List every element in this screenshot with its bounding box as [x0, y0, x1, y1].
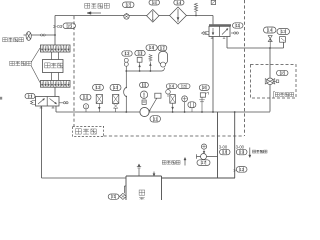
water tank label (shui xiang)	[139, 190, 145, 202]
gauge line y156	[197, 154, 218, 158]
tag oval 12 branch	[233, 167, 247, 173]
tag 3-03 with oval 15	[53, 23, 76, 29]
edge mark	[0, 97, 2, 100]
flow direction label top (shui liu fang xiang)	[85, 3, 110, 8]
tag 3-00 branch	[236, 145, 247, 155]
svg-text:21: 21	[111, 194, 116, 199]
tag oval 13 sensor	[110, 85, 121, 91]
gauge circle x184	[182, 96, 188, 112]
compressed air pipe	[24, 34, 56, 36]
tag oval 16 right	[199, 85, 209, 91]
water tank shell	[126, 176, 162, 200]
flow arrow left	[87, 12, 101, 15]
converter outlet pipe	[54, 87, 56, 96]
bottom return pipe left	[42, 177, 127, 179]
tank inlet arrow	[153, 172, 155, 177]
bus pipe lower	[217, 112, 219, 178]
tag oval 11 valve V2	[233, 23, 244, 28]
air cooler label (feng leng dan yuan)	[274, 91, 294, 97]
expansion tank	[159, 52, 168, 68]
vent outlet box N	[211, 0, 215, 4]
air cooler pipe	[269, 48, 271, 112]
pump inlet box	[142, 100, 146, 104]
svg-text:21: 21	[28, 94, 33, 99]
tag oval 17 expansion tank	[158, 45, 167, 51]
ball valve on top line	[124, 13, 129, 19]
pump P1	[140, 107, 149, 116]
bypass sensor box	[280, 37, 286, 43]
tank vent	[137, 164, 141, 176]
svg-text:14: 14	[170, 84, 174, 88]
junction dots header	[125, 70, 151, 72]
tag oval 11 gauge	[80, 94, 91, 100]
return drop pipe left	[41, 106, 43, 178]
tag oval 13 bypass	[277, 29, 290, 35]
top supply pipe	[55, 15, 213, 17]
air cooler dashed box	[251, 65, 297, 99]
water-cooling cabinet dashed boundary left	[73, 16, 75, 126]
tag oval 11 header	[135, 50, 145, 55]
converter bottom water jacket comb	[41, 81, 71, 88]
instrument header pipe	[126, 68, 164, 71]
thermometer circle	[140, 91, 147, 98]
level switch cable	[149, 98, 157, 111]
relief vent spring on top line	[194, 3, 197, 16]
cabinet label box (shui leng gui)	[73, 126, 104, 136]
left riser pipe	[54, 16, 56, 46]
level switch box	[155, 93, 161, 98]
tag oval 14 right	[166, 84, 177, 89]
pressure gauge x86	[83, 104, 88, 112]
inline capsule pump	[188, 102, 196, 112]
tank drain pipe	[124, 186, 126, 193]
solenoid directional valve V2	[209, 24, 231, 38]
svg-text:12: 12	[239, 167, 244, 172]
double ball valve x126	[124, 58, 128, 66]
tag oval 14 leader	[174, 0, 184, 5]
svg-text:12: 12	[125, 51, 130, 56]
tag oval 21 drain	[108, 194, 119, 199]
gauge small circle	[201, 144, 206, 153]
tag oval 18 air cooler	[277, 70, 289, 75]
pipe flange pair	[41, 34, 46, 36]
manifold corner junction	[125, 111, 235, 113]
filter F2 diamond	[170, 7, 187, 24]
compressed air label (ya suo kong qi)	[3, 38, 24, 42]
converter top water jacket comb	[41, 45, 71, 52]
junction bypass	[269, 47, 271, 49]
filter F1 diamond	[147, 10, 159, 23]
hose callout lines	[31, 48, 40, 83]
tag oval 21 valve	[25, 94, 35, 99]
tag oval 15 leader	[149, 0, 160, 5]
flow direction near tank (shui liu fang xiang)	[162, 158, 186, 166]
water-cooling cabinet dashed boundary bottom	[104, 135, 245, 137]
compressed air globe valve	[26, 32, 31, 41]
svg-text:18: 18	[222, 150, 227, 155]
tag oval 15 right	[178, 84, 190, 89]
svg-text:15: 15	[152, 0, 156, 5]
tag oval 14 bypass	[264, 27, 277, 33]
converter pipes lower	[52, 73, 59, 81]
tag oval pump column	[140, 82, 149, 87]
converter pipes upper	[52, 52, 59, 60]
sensor box x172	[170, 95, 176, 112]
junction left riser	[54, 34, 56, 36]
tag oval 12 sensor	[93, 85, 104, 91]
main bus pipe middle	[212, 37, 214, 113]
tag oval 11 below manifold	[150, 116, 161, 123]
valve V1 left pilot spring	[31, 101, 36, 105]
bypass pipe	[227, 37, 284, 49]
sensor box x115	[113, 95, 119, 113]
pump small circle y156	[201, 154, 207, 160]
small gauge circle x168	[166, 90, 171, 98]
bypass hourglass valve	[268, 36, 272, 48]
tag oval 13 on top line	[123, 2, 135, 8]
converter body box (bian liu qi)	[43, 60, 64, 73]
tag oval 16 header	[146, 45, 157, 51]
drain strainer diamond	[120, 193, 127, 199]
tag oval 12 column	[122, 51, 132, 56]
column pipe x126	[125, 66, 127, 112]
flow direction bottom right (shui liu fang xiang)	[249, 148, 267, 158]
manifold return pipe	[56, 106, 270, 112]
valve V2 right port	[231, 32, 238, 34]
hose connection label (ruan guan lian jie)	[10, 61, 31, 65]
flag valve x202	[199, 92, 208, 112]
air cooler fan	[265, 78, 279, 85]
sensor box x139	[137, 57, 142, 71]
bottom return pipe right	[162, 177, 236, 179]
branch pipe x234	[234, 112, 236, 178]
valve V1 right port	[59, 102, 68, 104]
hose loop x126	[124, 87, 127, 97]
svg-text:3-03: 3-03	[53, 24, 63, 29]
sensor box x99	[96, 95, 102, 113]
tag 3-00 bus	[219, 145, 230, 155]
main bus down right	[212, 16, 214, 27]
valve V2 left pilot spring	[202, 32, 210, 35]
solenoid directional valve V1	[36, 97, 60, 109]
tag oval 17 bottom	[197, 160, 210, 166]
svg-text:15: 15	[182, 84, 186, 88]
relief spring x150	[149, 55, 152, 72]
svg-text:19: 19	[239, 150, 244, 155]
water-cooling cabinet dashed boundary right	[244, 0, 246, 136]
